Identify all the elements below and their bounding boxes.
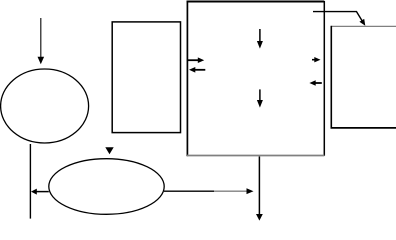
arrow A11 leftward at big rectangle right edge — [309, 80, 321, 86]
arrow A8 rightward at big rectangle left edge — [187, 57, 204, 63]
elbow arrow A5 from big rectangle to right rectangle top — [313, 12, 365, 26]
right rectangle R3 (open right side) — [331, 26, 396, 129]
wire W1 from circle bottom down — [29, 144, 31, 219]
middle rectangle R1 — [112, 22, 180, 133]
arrow A10 rightward at big rectangle right edge — [312, 57, 321, 62]
arrow A6 down inside big rectangle (upper) — [257, 29, 263, 49]
arrow A9 leftward at big rectangle left edge — [189, 67, 205, 73]
arrow A7 down inside big rectangle (lower) — [257, 89, 263, 107]
arrowhead A3 into ellipse top — [105, 147, 113, 154]
arrow A12 down from big rectangle bottom — [256, 157, 263, 221]
arrow A2 from ellipse left to wire W1 — [31, 189, 49, 195]
arrow A1 into circle top — [38, 18, 45, 64]
big rectangle R2 — [187, 1, 325, 156]
arrow A4 from ellipse right toward bottom wire — [164, 188, 254, 194]
circle node N1 — [1, 69, 89, 143]
ellipse node N2 — [49, 159, 164, 215]
